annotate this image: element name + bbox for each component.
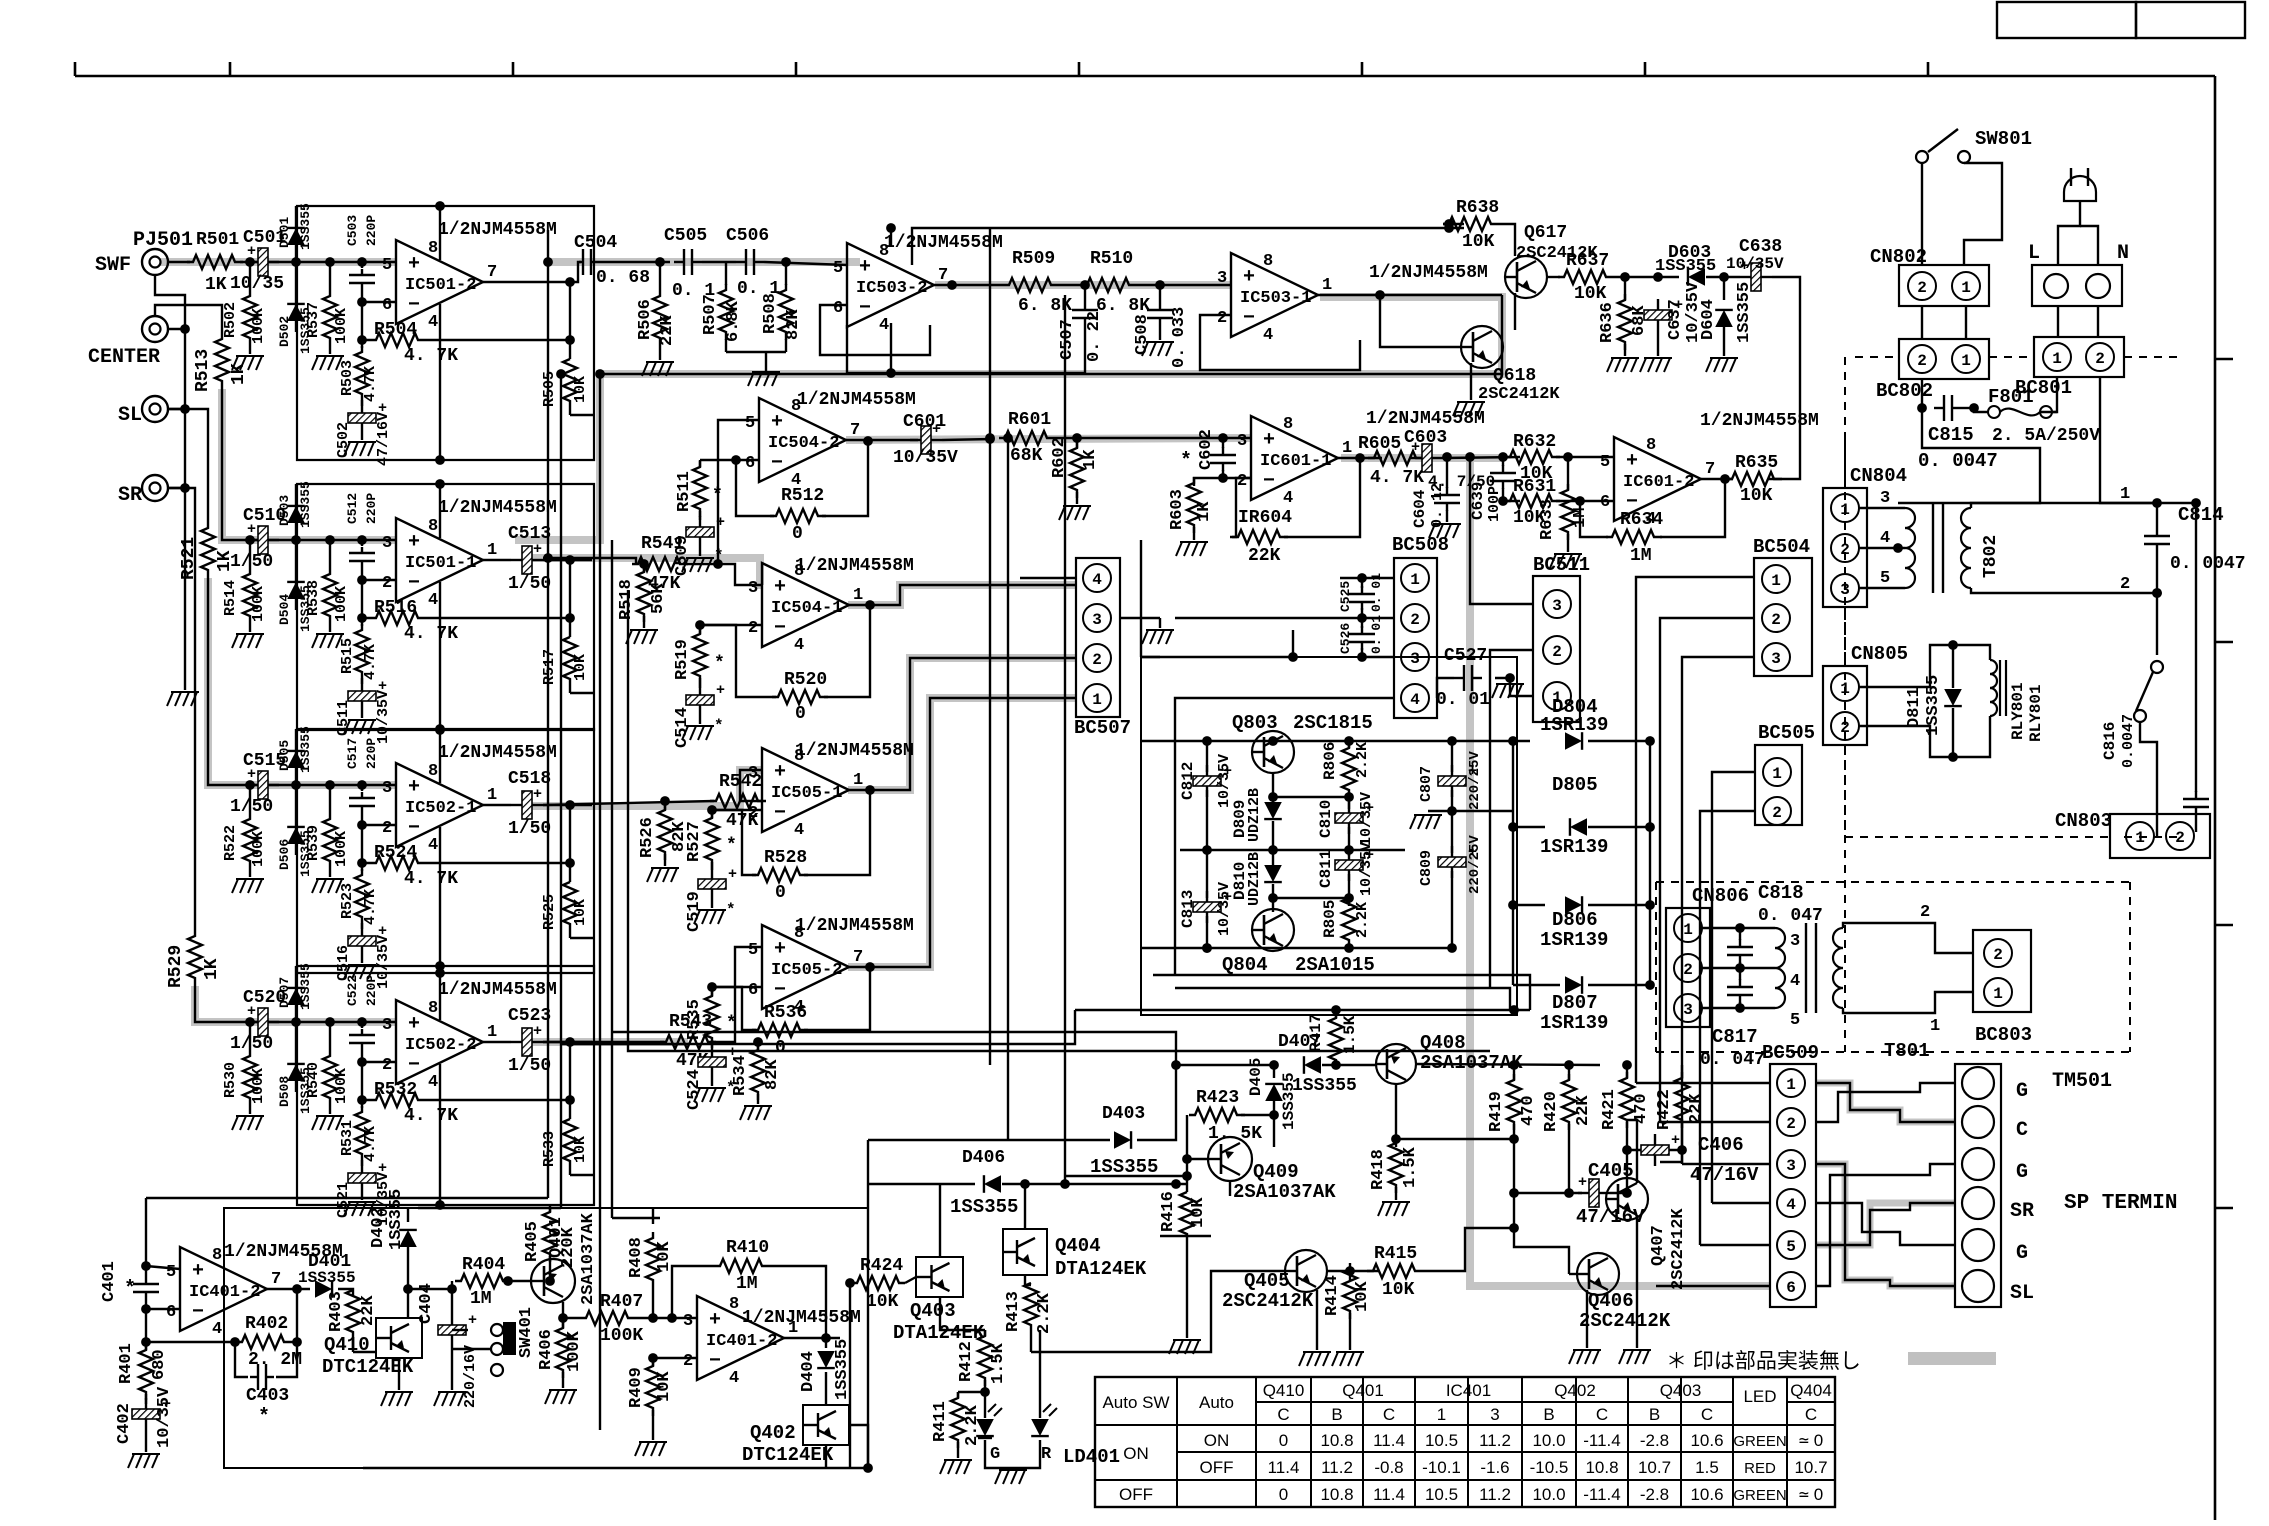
resistor R519 * — [699, 625, 701, 634]
resistor R510 6.8K — [1081, 278, 1137, 292]
svg-text:220P: 220P — [364, 493, 379, 524]
svg-text:4: 4 — [428, 313, 438, 332]
op-amp IC505-2 1/2NJM4558M — [762, 925, 849, 1009]
resistor R420 22K — [1568, 1065, 1570, 1080]
wire Q406 base — [1569, 1273, 1577, 1275]
transformer T802 core — [1932, 503, 1934, 593]
svg-text:−: − — [774, 802, 786, 825]
wire relay column down — [2156, 593, 2158, 655]
wire relay contact down — [2140, 722, 2157, 836]
svg-text:2: 2 — [382, 819, 392, 838]
resistor R536 0 — [752, 1023, 808, 1037]
svg-text:5: 5 — [748, 941, 758, 960]
svg-text:6: 6 — [833, 299, 843, 318]
resistor R516 4.7K — [357, 613, 367, 623]
resistor R405 220K — [549, 1208, 551, 1212]
wire output IC501-1 — [483, 559, 511, 561]
svg-text:10.8: 10.8 — [1585, 1458, 1618, 1477]
svg-text:R510: R510 — [1090, 249, 1133, 269]
resistor R529 1K — [188, 930, 202, 986]
svg-text:47/16V: 47/16V — [375, 412, 392, 466]
wire R509-R510 — [1059, 284, 1081, 286]
svg-text:UDZ12B: UDZ12B — [1246, 852, 1263, 906]
svg-text:R532: R532 — [374, 1080, 417, 1100]
svg-text:3: 3 — [1410, 650, 1420, 668]
wire D407 right — [1322, 1064, 1377, 1066]
svg-text:R508: R508 — [761, 293, 780, 334]
svg-text:47/16V: 47/16V — [1690, 1164, 1759, 1186]
dashed segment CN803 left — [1845, 836, 2110, 838]
wire SWF to R501 — [168, 261, 190, 263]
svg-text:R515: R515 — [339, 638, 356, 674]
svg-text:1SS355: 1SS355 — [298, 203, 313, 250]
resistor R403 22K — [346, 1290, 360, 1334]
svg-text:0. 68: 0. 68 — [596, 268, 650, 288]
wire C811 to row — [1348, 874, 1350, 898]
wire jack sleeve bus — [155, 275, 185, 690]
svg-text:D403: D403 — [1102, 1104, 1145, 1124]
svg-text:1/2NJM4558M: 1/2NJM4558M — [1369, 263, 1488, 283]
svg-text:8: 8 — [1263, 252, 1273, 271]
resistor IR604 22K — [1232, 530, 1288, 544]
ground R411 — [957, 1452, 959, 1458]
resistor R511 * — [700, 459, 736, 461]
svg-text:4: 4 — [212, 1320, 222, 1339]
diode D506 1SS355 — [295, 785, 297, 855]
svg-text:IR604: IR604 — [1238, 508, 1292, 528]
relay core RLY801 — [1999, 660, 2001, 716]
ground LD401 — [995, 1470, 1001, 1484]
svg-text:GREEN: GREEN — [1733, 1487, 1786, 1504]
svg-text:2: 2 — [1786, 1115, 1796, 1133]
AC inlet box — [2032, 265, 2122, 306]
diode D404 1SS355 — [825, 1338, 827, 1348]
capacitor C527 0.01 — [1454, 677, 1464, 679]
svg-text:R408: R408 — [627, 1237, 646, 1278]
wire BC801 pin2 down — [2100, 377, 2160, 503]
connector CN805 — [1823, 666, 1867, 745]
wire stage input row IC502-2 — [240, 1021, 396, 1023]
svg-text:Q618: Q618 — [1493, 366, 1536, 386]
gray highlight stage3 input row — [208, 578, 395, 785]
diode D503 1SS355 — [291, 535, 301, 545]
feedback wire IC501-2 — [361, 302, 363, 340]
svg-text:3: 3 — [748, 579, 758, 598]
svg-text:C: C — [1596, 1405, 1608, 1424]
svg-text:C512: C512 — [345, 493, 360, 524]
svg-text:D811: D811 — [1905, 687, 1924, 728]
svg-text:1: 1 — [1840, 501, 1850, 519]
svg-text:D604: D604 — [1699, 299, 1718, 340]
svg-text:BC507: BC507 — [1074, 717, 1131, 739]
svg-text:D806: D806 — [1552, 909, 1598, 931]
svg-text:C517: C517 — [345, 738, 360, 769]
ground R537 — [312, 356, 318, 370]
svg-text:1.5K: 1.5K — [1341, 1015, 1359, 1054]
svg-text:6: 6 — [745, 454, 755, 473]
wire R521 down to stage3 — [208, 578, 240, 785]
svg-text:1M: 1M — [470, 1289, 492, 1309]
connector BC504 — [1754, 558, 1812, 676]
ground R414 — [1332, 1352, 1338, 1366]
capacitor C810 10/35V — [1348, 797, 1350, 809]
svg-text:4.7K: 4.7K — [362, 644, 379, 680]
svg-text:1.5: 1.5 — [1695, 1458, 1719, 1477]
svg-text:6.8K: 6.8K — [724, 300, 743, 342]
transistor Q618 2SC2412K — [1461, 326, 1503, 368]
wires BC509 to TM501 crossover — [1816, 1083, 1955, 1122]
svg-text:IC601-2: IC601-2 — [1623, 473, 1694, 492]
svg-text:C: C — [1701, 1405, 1713, 1424]
svg-text:4. 7K: 4. 7K — [404, 1106, 458, 1126]
svg-text:*: * — [1180, 450, 1192, 473]
svg-text:−: − — [408, 1054, 420, 1077]
svg-text:6: 6 — [166, 1303, 176, 1322]
transistor Q410 DTC124EK — [376, 1318, 422, 1358]
svg-text:C: C — [1805, 1405, 1817, 1424]
svg-text:0: 0 — [775, 1038, 786, 1058]
svg-text:8: 8 — [428, 239, 438, 258]
svg-text:3: 3 — [382, 1016, 392, 1035]
block box Q803 — [1141, 657, 1517, 1015]
svg-text:−: − — [771, 452, 783, 475]
svg-text:3: 3 — [1880, 489, 1890, 508]
wire IC601-1 out — [1338, 457, 1382, 459]
svg-text:G: G — [990, 1445, 1000, 1464]
AC plug — [2064, 176, 2096, 201]
svg-text:0. 033: 0. 033 — [1170, 307, 1189, 368]
vertical riser x=868 — [867, 1140, 869, 1468]
resistor R512 0 — [770, 509, 826, 523]
svg-text:*: * — [714, 654, 725, 674]
capacitor C516 10/35V — [348, 936, 376, 946]
wire R513 down to stage2 — [222, 389, 240, 540]
resistor R506 22K — [659, 262, 661, 290]
svg-text:N: N — [2117, 242, 2129, 265]
svg-text:Q402: Q402 — [1554, 1381, 1596, 1400]
svg-text:2.2K: 2.2K — [963, 1404, 982, 1446]
svg-text:R637: R637 — [1566, 251, 1609, 271]
svg-text:IC504-2: IC504-2 — [768, 434, 839, 453]
svg-text:DTA124EK: DTA124EK — [1055, 1258, 1147, 1280]
wire IC504-1 out — [848, 585, 1076, 605]
svg-text:IC503-2: IC503-2 — [856, 279, 927, 298]
ground R518 — [626, 630, 632, 644]
svg-text:3: 3 — [382, 779, 392, 798]
svg-text:R406: R406 — [537, 1329, 556, 1370]
resistor R540 100K — [325, 1017, 335, 1027]
wire R403 to Q410 — [353, 1351, 376, 1353]
svg-text:+: + — [468, 1312, 477, 1329]
svg-text:D502: D502 — [277, 316, 292, 347]
svg-text:C639: C639 — [1469, 482, 1487, 520]
svg-text:10K: 10K — [866, 1292, 899, 1312]
resistor R530 100K — [245, 1017, 255, 1027]
wire minus input IC501-1 — [362, 579, 396, 581]
svg-text:R404: R404 — [462, 1255, 505, 1275]
svg-text:*: * — [712, 486, 723, 506]
svg-text:6: 6 — [1600, 493, 1610, 512]
resistor R401 680 — [145, 1342, 147, 1350]
svg-text:10.7: 10.7 — [1794, 1458, 1827, 1477]
wire IC505-2 out — [848, 698, 1076, 967]
svg-text:10K: 10K — [1740, 486, 1773, 506]
svg-text:R539: R539 — [305, 825, 322, 861]
svg-text:2: 2 — [1840, 719, 1850, 737]
capacitor C815 0.0047 — [1934, 407, 1944, 409]
resistor R522 100K — [245, 780, 255, 790]
wire SL sleeve — [168, 408, 185, 410]
svg-text:CN805: CN805 — [1851, 643, 1908, 665]
gray highlight trace IC503-2 out — [935, 281, 1231, 289]
svg-text:TM501: TM501 — [2052, 1070, 2112, 1093]
svg-text:D505: D505 — [277, 740, 292, 771]
svg-text:3: 3 — [1790, 932, 1800, 951]
diode D505 1SS355 — [291, 780, 301, 790]
svg-text:Q617: Q617 — [1524, 223, 1567, 243]
junction dots buses — [543, 257, 553, 267]
svg-text:CN806: CN806 — [1692, 885, 1749, 907]
svg-text:7: 7 — [938, 266, 948, 285]
svg-text:-2.8: -2.8 — [1640, 1485, 1669, 1504]
wire stage input row IC501-1 — [240, 539, 396, 541]
svg-text:Q409: Q409 — [1253, 1161, 1299, 1183]
border top ticks — [229, 62, 232, 76]
small ground C809 top — [1428, 810, 1452, 812]
svg-text:CENTER: CENTER — [88, 346, 160, 369]
feedback wire IC502-1 — [361, 825, 363, 863]
svg-text:0. 0047: 0. 0047 — [2170, 554, 2246, 574]
wire SW401 stub — [452, 1329, 468, 1331]
dashed boundary lower power box — [1655, 882, 1657, 1052]
svg-text:10/35V: 10/35V — [375, 690, 392, 744]
svg-text:2: 2 — [1237, 472, 1247, 491]
wire IC401-2b out — [784, 1337, 840, 1339]
ground C502 — [361, 434, 363, 440]
wire BC508 pin3 left — [1362, 656, 1394, 658]
connector CN804 — [1823, 488, 1867, 607]
svg-text:1/2NJM4558M: 1/2NJM4558M — [438, 743, 557, 763]
svg-text:-0.8: -0.8 — [1374, 1458, 1403, 1477]
svg-text:+: + — [728, 1044, 737, 1061]
svg-text:8: 8 — [1646, 436, 1656, 455]
resistor R413 2.2K — [1024, 1283, 1038, 1327]
capacitor C515 1/50 — [258, 771, 268, 799]
wire Q404 top — [1024, 1184, 1026, 1229]
wire C810 to mid rail — [1348, 827, 1350, 850]
svg-text:5: 5 — [745, 414, 755, 433]
svg-text:T801: T801 — [1884, 1040, 1930, 1062]
wire C506 to IC503-2 — [764, 262, 847, 265]
svg-text:3: 3 — [1092, 611, 1102, 629]
resistor R412 1.5K — [984, 1330, 986, 1336]
svg-text:BC505: BC505 — [1758, 722, 1815, 744]
svg-text:R536: R536 — [764, 1003, 807, 1023]
resistor R410 1M — [672, 1266, 686, 1318]
svg-text:4: 4 — [1410, 691, 1420, 709]
connector BC507 — [1076, 558, 1120, 717]
svg-text:1SS355: 1SS355 — [1292, 1076, 1357, 1096]
svg-text:1/50: 1/50 — [230, 552, 273, 572]
op-amp IC502-1 power pins — [439, 729, 441, 783]
svg-text:*: * — [714, 547, 724, 565]
gray highlight BC509-TM501 wires — [1816, 1083, 1955, 1122]
resistor R605 4.7K — [1368, 451, 1424, 465]
svg-text:+: + — [192, 1260, 204, 1283]
wire SW801 left down — [1921, 163, 1923, 265]
svg-text:4: 4 — [1283, 489, 1293, 508]
wire R424 to Q403 — [905, 1277, 916, 1283]
svg-text:100K: 100K — [565, 1330, 584, 1372]
svg-text:+: + — [859, 256, 871, 279]
svg-text:IC401-2: IC401-2 — [706, 1332, 777, 1351]
svg-text:1: 1 — [1342, 439, 1352, 458]
gray highlight stage2 input row — [222, 389, 395, 540]
svg-text:R605: R605 — [1358, 434, 1401, 454]
resistor R421 470 — [1626, 1065, 1628, 1078]
svg-text:1/50: 1/50 — [508, 1056, 551, 1076]
diode D507 1SS355 — [291, 1017, 301, 1027]
ground R506 — [642, 362, 648, 376]
svg-text:R522: R522 — [222, 825, 239, 861]
wire BC801 pin1 down to fuse — [2040, 377, 2057, 412]
svg-text:−: − — [408, 817, 420, 840]
ground R526 — [647, 868, 653, 882]
svg-text:7: 7 — [853, 948, 863, 967]
svg-text:1SR139: 1SR139 — [1540, 929, 1608, 951]
wire C603 right — [1443, 457, 1520, 458]
wire output IC501-2 — [483, 281, 570, 283]
resistor R537 100K — [325, 257, 335, 267]
svg-text:R538: R538 — [305, 580, 322, 616]
relay coil RLY801 — [1953, 645, 1990, 660]
svg-text:22K: 22K — [1574, 1095, 1593, 1126]
resistor R402 2.2M — [236, 1335, 292, 1349]
svg-text:Q407: Q407 — [1649, 1225, 1668, 1266]
svg-text:82K: 82K — [784, 309, 803, 340]
transistor Q403 DTA124EK box — [916, 1257, 963, 1297]
svg-text:220/25V: 220/25V — [1467, 751, 1483, 810]
wire R423 left column — [1186, 1115, 1188, 1176]
resistor R542 47K — [710, 794, 766, 808]
svg-text:1: 1 — [1092, 691, 1102, 709]
svg-text:C511: C511 — [335, 700, 352, 736]
resistor R407 100K — [580, 1311, 636, 1325]
svg-text:+: + — [408, 1013, 420, 1036]
svg-text:D805: D805 — [1552, 774, 1598, 796]
wire stage input row IC502-1 — [240, 784, 396, 786]
svg-text:4: 4 — [729, 1369, 739, 1388]
wire Q408 right rail — [1416, 1064, 1600, 1065]
vertical bus D2 — [628, 590, 1490, 1051]
svg-text:11.4: 11.4 — [1373, 1485, 1405, 1504]
svg-text:4. 7K: 4. 7K — [404, 869, 458, 889]
resistor R541 47K — [632, 557, 688, 571]
rail above R417 — [1075, 1009, 1530, 1011]
svg-text:10/35: 10/35 — [230, 274, 284, 294]
svg-text:100K: 100K — [250, 308, 267, 344]
wire minus loop IC503-2 — [820, 305, 930, 355]
svg-text:1M: 1M — [1630, 546, 1652, 566]
op-amp IC501-2 1/2NJM4558M — [396, 240, 483, 324]
dashed boundary power box — [1844, 357, 1846, 837]
svg-text:R520: R520 — [784, 670, 827, 690]
svg-text:ON: ON — [1204, 1431, 1230, 1450]
feedback wire R604 right — [1284, 458, 1360, 537]
svg-text:RLY801: RLY801 — [2027, 684, 2045, 742]
wire D401 to R403 — [338, 1289, 353, 1296]
wire CENTER sleeve — [168, 328, 185, 330]
wire Q617 out to R637 — [1547, 276, 1560, 278]
diode D407 1SS355 — [1304, 1056, 1321, 1074]
resistor R414 10K — [1349, 1271, 1351, 1281]
svg-text:1/2NJM4558M: 1/2NJM4558M — [795, 556, 914, 576]
gray highlight trace C639 bus down to BC511 — [1470, 458, 1770, 1286]
svg-text:+: + — [1578, 1174, 1587, 1191]
wire C813 down — [1206, 916, 1208, 948]
svg-text:R415: R415 — [1374, 1244, 1417, 1264]
svg-text:1: 1 — [1322, 276, 1332, 295]
svg-text:3: 3 — [1217, 269, 1227, 288]
connector CN806 — [1666, 908, 1710, 1027]
resistor R418 1.5K — [1395, 1139, 1397, 1147]
svg-text:+: + — [774, 938, 786, 961]
IC503-2 power pins — [890, 228, 892, 247]
diode D811 1SS355 — [1952, 645, 1954, 688]
svg-text:−: − — [408, 294, 420, 317]
svg-text:2: 2 — [382, 1056, 392, 1075]
svg-text:−: − — [709, 1350, 721, 1373]
wire BC505 pin2 — [1700, 811, 1755, 1245]
svg-text:D406: D406 — [962, 1148, 1005, 1168]
svg-text:R507: R507 — [701, 294, 720, 335]
op-amp IC601-2 1/2NJM4558M — [1614, 437, 1701, 521]
wire R632 to IC601-2 plus — [1556, 456, 1614, 458]
svg-text:DTC124EK: DTC124EK — [742, 1444, 834, 1466]
svg-text:+: + — [728, 866, 737, 883]
resistor R526 82K — [664, 801, 666, 810]
svg-text:2: 2 — [1410, 611, 1420, 629]
svg-text:1/2NJM4558M: 1/2NJM4558M — [884, 233, 1003, 253]
svg-text:10.7: 10.7 — [1638, 1458, 1671, 1477]
wire IC503-1 out — [1318, 294, 1502, 296]
resistor R525 10K — [569, 863, 571, 882]
svg-text:4. 7K: 4. 7K — [404, 346, 458, 366]
svg-text:IC505-2: IC505-2 — [771, 961, 842, 980]
svg-text:R632: R632 — [1513, 432, 1556, 452]
svg-text:RLY801: RLY801 — [2009, 682, 2027, 740]
vertical bus D — [611, 540, 613, 1218]
wire D806 right — [1588, 904, 1650, 906]
svg-text:3: 3 — [1552, 597, 1562, 615]
svg-text:IC503-1: IC503-1 — [1240, 289, 1311, 308]
resistor R523 4.7K — [361, 863, 363, 871]
resistor R602 1K — [1076, 438, 1078, 448]
svg-text:10/35V: 10/35V — [1358, 792, 1375, 846]
wire Q401 emitter down — [562, 1302, 564, 1318]
resistor R524 4.7K — [357, 858, 367, 868]
svg-text:C508: C508 — [1133, 314, 1152, 355]
svg-text:SW401: SW401 — [517, 1307, 536, 1358]
capacitor C504 0.68 — [570, 262, 581, 282]
svg-text:R603: R603 — [1168, 489, 1187, 530]
svg-text:1SR139: 1SR139 — [1540, 714, 1608, 736]
svg-text:*: * — [714, 717, 724, 735]
svg-text:4: 4 — [1880, 529, 1890, 548]
resistor R508 82K — [785, 262, 787, 285]
ground C509 — [699, 548, 701, 556]
resistor R635 10K — [1726, 472, 1782, 486]
